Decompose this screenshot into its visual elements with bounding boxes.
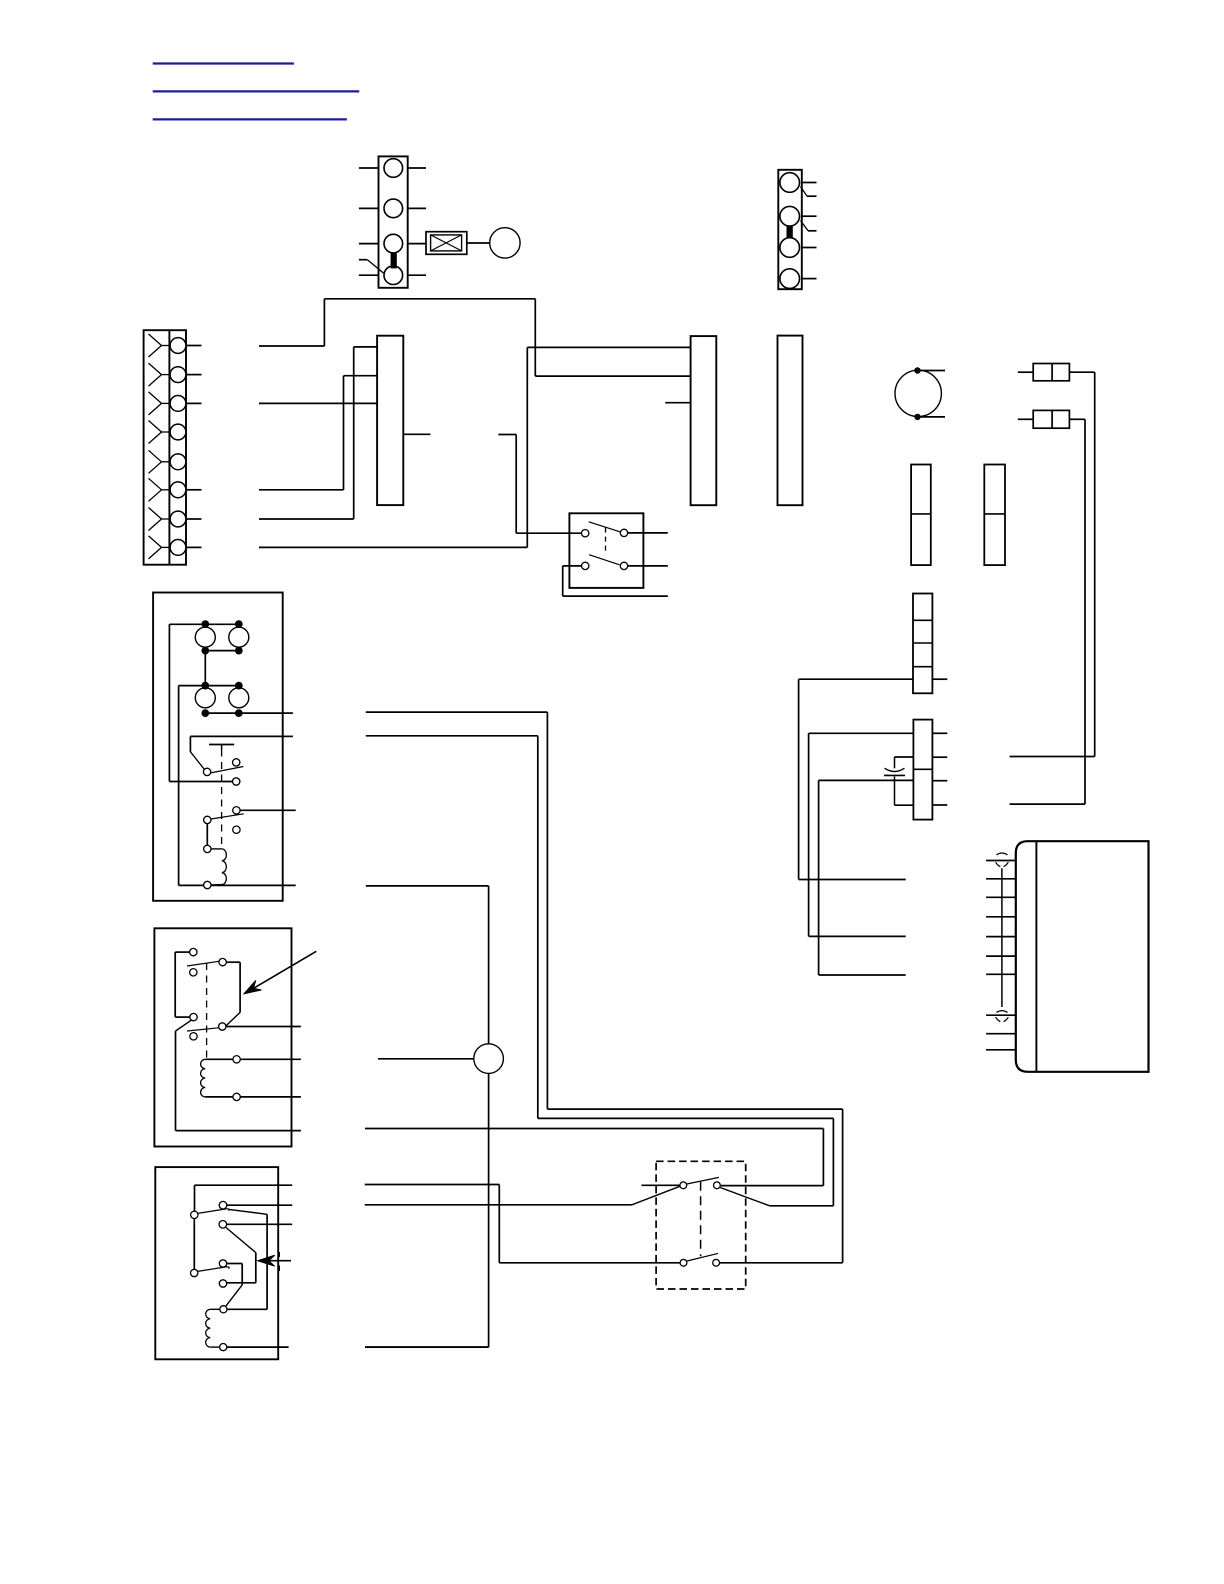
F1 left lead (1018, 371, 1033, 373)
fuse F1 (1033, 364, 1069, 381)
S2 top-right blade to lower path (720, 1188, 770, 1206)
K3 contact N exit wire (227, 1223, 293, 1225)
K2 contact 6 exit wire (226, 1026, 301, 1028)
horn B1 (490, 228, 520, 258)
connector J2 (778, 170, 816, 289)
interlock switch S2 box (dashed) (656, 1161, 746, 1289)
TB2 third-left wire (819, 780, 914, 975)
fusible link FL1 (426, 232, 467, 255)
fuse F2 (1033, 410, 1069, 428)
K3 link c1-c2 (193, 1218, 195, 1269)
K3 coil terminal bottom (220, 1344, 227, 1351)
A1 pin 1 (986, 860, 1016, 862)
TB2 right stub 1 (932, 732, 947, 734)
relay K1 box (153, 593, 283, 901)
terminal strip TB2 (913, 720, 932, 820)
HU block C (778, 336, 803, 506)
K2 wire c4 to c6 (226, 962, 240, 1025)
A1 shield bundle line (1001, 868, 1003, 1007)
K3 contact M exit wire (227, 1204, 292, 1206)
hyperlink underline 2 (153, 90, 360, 92)
K1 switch2 lower contact (233, 826, 240, 833)
relay K2 box (154, 928, 291, 1146)
wire K3 top to S2 lower switch (365, 1185, 680, 1263)
K3 moving contact 2 (191, 1269, 198, 1276)
relay K3 box (155, 1167, 278, 1359)
F2 wire to lower right (1010, 419, 1085, 804)
K3 contact P (219, 1260, 226, 1267)
K3 moving contact 1 (191, 1211, 198, 1218)
A1 pin 2 (986, 878, 1016, 880)
K1 switch1 blade (211, 767, 244, 773)
K1 armature T-bar (209, 745, 234, 750)
K1 switch2 blade (211, 814, 244, 819)
hyperlink underline 1 (153, 62, 294, 64)
K1 coil terminal bottom (204, 881, 211, 888)
M1 terminal dot bottom (914, 414, 920, 420)
wire FL1 to horn (467, 242, 490, 244)
M1 bottom lead (920, 416, 945, 418)
S1 top-right wire (628, 532, 668, 534)
K1 switch2 moving contact (204, 816, 211, 823)
S1 contact top-right (620, 529, 627, 536)
K3 wire P to coil top (226, 1264, 242, 1306)
K2 contact 3 (190, 1013, 197, 1020)
A1 pin 8 (986, 1014, 1016, 1016)
S1 blade top (589, 522, 620, 532)
wire J3 pin8 to HU block B (259, 347, 691, 547)
K1 switch1 NO contact (233, 759, 240, 766)
K2 contact 4 (219, 958, 226, 965)
K3 wire N to Q (226, 1228, 256, 1283)
K2 coil (201, 1059, 206, 1097)
S2 bottom-right contact (713, 1259, 720, 1266)
wire J3 pin1 to HU block B left (top route) (259, 299, 691, 376)
TB2 right stub 3 (932, 780, 947, 782)
junction grommet G1 (474, 1044, 504, 1074)
TB2 top-left wire (809, 733, 914, 936)
A1 pin 10 (986, 1049, 1016, 1051)
wire K2 c3 to interlock (long) (365, 1129, 823, 1186)
A1 pin 7 (986, 973, 1016, 975)
M1 terminal dot top (914, 367, 920, 373)
S1 gang link (dashed) (605, 528, 607, 555)
K3 blade 2 (198, 1267, 229, 1272)
A1 pin 9 (986, 1033, 1016, 1035)
wire G1 feed from K2 coil top (377, 1058, 379, 1060)
K3 coil bottom exit wire (227, 1346, 289, 1348)
shield mark bottom (996, 1011, 1009, 1022)
resistor block R1 (911, 465, 931, 566)
K3 top wire (195, 1185, 293, 1211)
capacitor C1 bypass (895, 757, 914, 805)
F1 wire to lower right (1010, 372, 1095, 756)
G1 lower wire (365, 1073, 489, 1347)
K2 contact 5 (190, 1033, 197, 1040)
K1 contact pair 2 (179, 682, 283, 717)
K3 contact M (219, 1201, 227, 1209)
S2 top-left contact (680, 1182, 687, 1189)
TB1 right stub (932, 678, 947, 680)
HU block B (691, 336, 717, 505)
wire to switch S1 (498, 435, 581, 534)
connector J3 (144, 330, 202, 565)
S2 bottom-right wire (720, 1262, 843, 1264)
S2 bottom-left contact (680, 1259, 687, 1266)
switch S1 box (569, 513, 643, 588)
K2 contact 6 (219, 1023, 226, 1030)
K3 wire M to coil top (227, 1209, 267, 1309)
S1 contact bottom-left (582, 562, 589, 569)
K2 contact 2 (190, 969, 197, 976)
wire K1 pair2 to interlock switch (long) (366, 712, 843, 1263)
S1 blade bottom (589, 555, 619, 565)
K2 coil top wire (205, 1058, 233, 1060)
K1 coil bottom wire (211, 884, 296, 886)
K2 blade top (187, 961, 219, 966)
J1 key bar (391, 254, 396, 268)
K1 switch1 moving contact (203, 768, 210, 775)
K1 contact pair 1 (169, 620, 248, 654)
K2 coil terminal top (233, 1056, 240, 1063)
K3 blade 1 (198, 1209, 229, 1214)
J2 key bar (787, 227, 792, 238)
G1 left wire (378, 1058, 474, 1060)
wire K1 common to interlock switch (long) (366, 736, 834, 1206)
S2 top-right contact (714, 1182, 721, 1189)
S2 gang link (dashed) (700, 1182, 702, 1257)
K3 coil terminal top (220, 1306, 227, 1313)
K2 wire c3 to exit (176, 1020, 301, 1131)
K2 coil top exit (240, 1058, 301, 1060)
K3 contact N (219, 1221, 227, 1229)
K1 pair2 exit stub (283, 712, 293, 714)
K2 armature link (dashed) (206, 963, 208, 1058)
K1 coil terminal top (204, 845, 211, 852)
S2 top blade (687, 1177, 719, 1184)
K3 coil (206, 1309, 220, 1347)
motor M1 (895, 370, 941, 416)
amplifier module A1 (1016, 841, 1149, 1072)
capacitor C1 (884, 768, 905, 775)
hyperlink underline 3 (153, 118, 347, 120)
HU block A right stub (403, 433, 430, 435)
A1 pin 6 (986, 955, 1016, 957)
A1 pin 5 (986, 936, 1016, 938)
connector J1 (359, 156, 426, 287)
K1 wire pair1 to NC contact (169, 624, 232, 781)
J2 pin1 branch lead (801, 187, 817, 197)
F2 left lead (1018, 418, 1033, 420)
K2 bracket wire c1-c3 (175, 952, 190, 1017)
K1 switch1 NC contact (233, 778, 240, 785)
K2 contact 1 (190, 948, 197, 955)
A1 pin 3 (986, 896, 1016, 898)
TB1 left wire (799, 679, 913, 879)
J2 pin2 branch lead (801, 221, 817, 231)
TB2 right stub 2 (932, 756, 947, 758)
resistor block R2 (984, 465, 1005, 566)
K1 switch2 NO wire (240, 809, 296, 811)
A1 pin 4 (986, 916, 1016, 918)
K3 contact Q (219, 1280, 226, 1287)
HU block A (377, 336, 403, 505)
HU block B left stub (665, 402, 690, 404)
M1 top lead (920, 370, 945, 372)
K2 blade bottom (187, 1028, 219, 1031)
S2 bottom blade (687, 1253, 718, 1261)
S1 contact bottom-right (620, 562, 627, 569)
K1 common exit stub (283, 735, 293, 737)
K2 coil terminal bottom (233, 1093, 240, 1100)
K1 link to coil (206, 824, 208, 846)
K1 armature link (dashed) (221, 750, 223, 847)
wire K3 contact M to S2 upper switch (365, 1186, 681, 1205)
K1 switch1 common wire (190, 736, 282, 769)
S2 top-left stub (642, 1184, 680, 1186)
K1 pair link (204, 651, 206, 686)
wire K3 coil to junction G1 (365, 1346, 489, 1348)
shield mark top (996, 853, 1009, 867)
S1 bottom-right wire (628, 565, 668, 567)
K1 switch2 NO contact (233, 807, 240, 814)
section dash marks at K3 (278, 1252, 280, 1271)
K2 coil bottom wire (205, 1096, 233, 1098)
S1 contact top-left (582, 530, 589, 537)
pointer arrow to K3 (258, 1255, 291, 1266)
K1 wire pair2 to coil bottom (179, 686, 204, 886)
S1 bottom-left bypass wire (563, 566, 668, 596)
wire K1 coil to junction J (long) (366, 886, 489, 1044)
wire J3 pin7 to HU block A (259, 347, 377, 519)
K1 coil (211, 849, 226, 885)
TB2 right stub 4 (932, 804, 947, 806)
K2 coil bottom exit (240, 1096, 301, 1098)
terminal strip TB1 (913, 594, 932, 694)
pointer arrow to K2 (244, 951, 316, 994)
J1 pin4 lead with pointer (359, 260, 384, 273)
wire J3 pin6 to HU block A (259, 376, 377, 490)
wire J3 pin3 to HU block A (259, 402, 377, 404)
